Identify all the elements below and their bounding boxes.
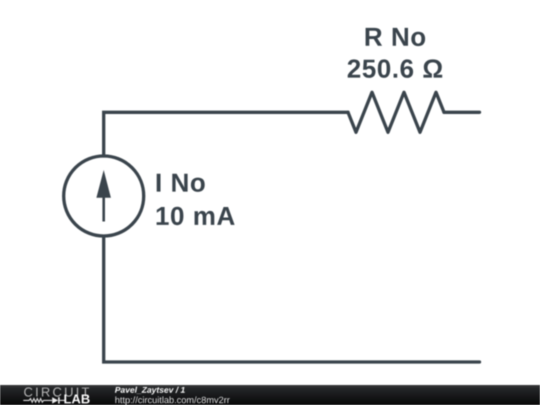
CircuitLab logo: diode triangle — [52, 397, 58, 403]
wire: resistor right lead — [444, 111, 480, 114]
CircuitLab logo: LAB word — [64, 395, 89, 404]
CircuitLab logo: wire to LAB — [60, 399, 66, 401]
label I No — [157, 174, 205, 192]
wire: from current source top, up and right along top rail — [104, 112, 348, 156]
CircuitLab logo: resistor zigzag — [23, 399, 52, 403]
footer credit: Pavel_Zaytsev / 1 — [115, 387, 185, 395]
footer credit: circuit url — [115, 396, 229, 405]
value label 10 mA for I No — [157, 207, 235, 226]
resistor R No (zigzag body) — [348, 92, 444, 132]
current source arrow shaft — [102, 192, 105, 222]
footer bar — [0, 385, 540, 405]
value label 250.6 ohm for R No — [348, 59, 443, 78]
CircuitLab logo: diode cathode bar — [58, 397, 60, 403]
CircuitLab logo: CIRCUIT word — [24, 387, 89, 396]
wire: from current source bottom, down and right along bottom rail — [104, 237, 480, 363]
current source I No (circle) — [64, 156, 144, 236]
label R No — [366, 28, 426, 46]
current source arrow head — [96, 170, 111, 198]
